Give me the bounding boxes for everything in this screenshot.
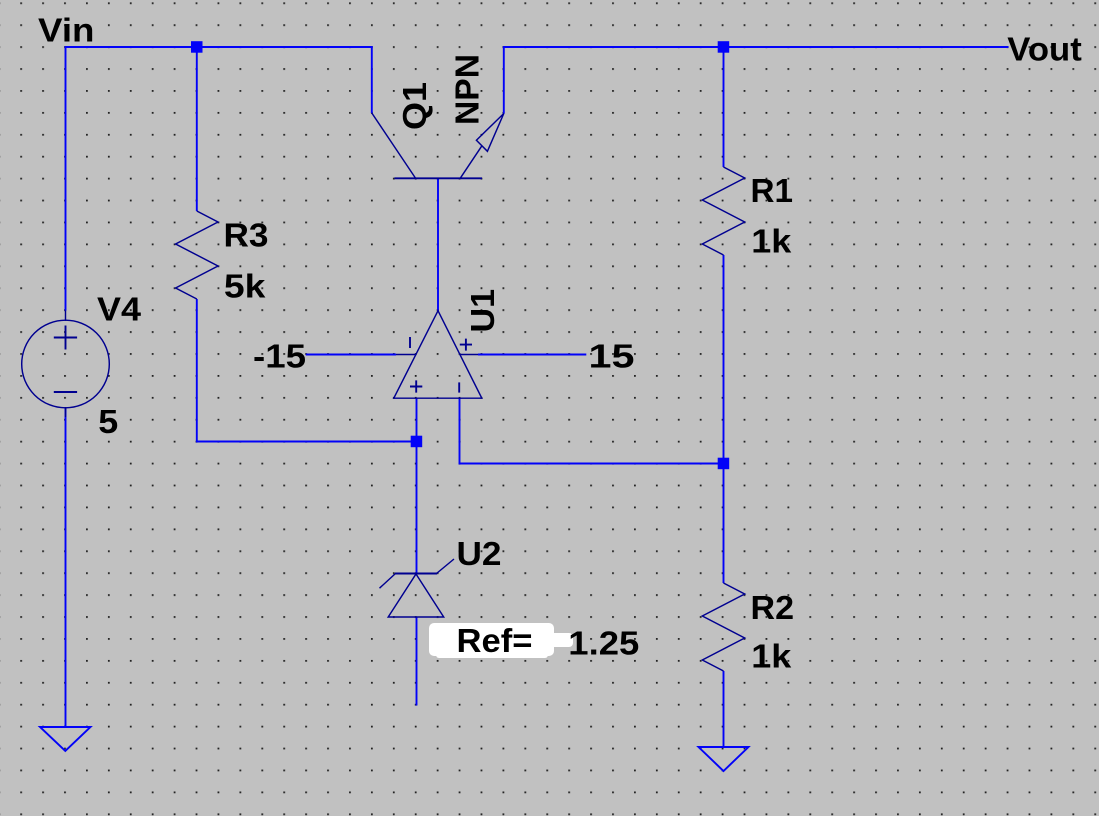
ground (V4) xyxy=(40,727,91,751)
node junction J3 divider tap xyxy=(718,458,730,470)
zener diode U2 xyxy=(380,559,455,617)
voltage source V4 xyxy=(22,311,110,418)
svg-text:Vin: Vin xyxy=(38,13,95,50)
wire op-amp noninverting pin down through junction to zener xyxy=(416,398,418,573)
op-amp U1 xyxy=(394,311,482,399)
ground (R2) xyxy=(699,747,749,771)
node junction J4 on Vout rail xyxy=(718,41,730,53)
wire R3 bottom to op-amp noninverting node xyxy=(197,299,417,442)
wire R1 top stub xyxy=(723,46,725,167)
wire op-amp inverting pin to divider xyxy=(460,398,724,464)
svg-text:Ref=: Ref= xyxy=(457,623,533,660)
resistor R1 xyxy=(702,167,744,255)
wire V4 bottom to ground xyxy=(65,408,67,727)
svg-text:1k: 1k xyxy=(751,223,791,260)
svg-text:-15: -15 xyxy=(253,339,306,376)
svg-text:R2: R2 xyxy=(751,590,795,627)
svg-text:15: 15 xyxy=(589,339,635,376)
svg-text:U1: U1 xyxy=(465,289,502,333)
node junction J1 on Vin rail xyxy=(191,41,203,53)
transistor Q1 xyxy=(372,113,504,178)
svg-text:5k: 5k xyxy=(224,269,266,306)
svg-text:Q1: Q1 xyxy=(397,82,434,130)
wire R1 bottom to R2 top xyxy=(723,255,725,583)
wire Vout net: emitter up, top rail right xyxy=(504,47,1009,114)
wire -15 supply rail xyxy=(306,354,396,356)
wire Q1 base to op-amp output xyxy=(437,179,439,312)
svg-text:Vout: Vout xyxy=(1007,32,1082,69)
wire junction stub down to R3 xyxy=(196,46,198,211)
svg-text:5: 5 xyxy=(98,404,118,441)
node junction J2 noninverting/feedback xyxy=(411,436,423,448)
resistor R2 xyxy=(702,583,744,671)
svg-text:NPN: NPN xyxy=(449,54,486,125)
svg-text:R3: R3 xyxy=(224,218,269,255)
wire R2 bottom to ground xyxy=(723,671,725,747)
svg-text:R1: R1 xyxy=(751,173,794,210)
white patch behind Ref= xyxy=(429,623,573,658)
wire zener anode dangling end xyxy=(416,617,418,706)
svg-text:U2: U2 xyxy=(457,536,502,573)
wire Vin net: left vertical, top rail to Q1 collector xyxy=(66,47,372,311)
wire 15 supply rail xyxy=(478,354,586,356)
svg-text:1k: 1k xyxy=(751,638,791,675)
resistor R3 xyxy=(176,211,218,299)
svg-text:1.25: 1.25 xyxy=(568,625,639,662)
svg-text:V4: V4 xyxy=(97,292,141,329)
